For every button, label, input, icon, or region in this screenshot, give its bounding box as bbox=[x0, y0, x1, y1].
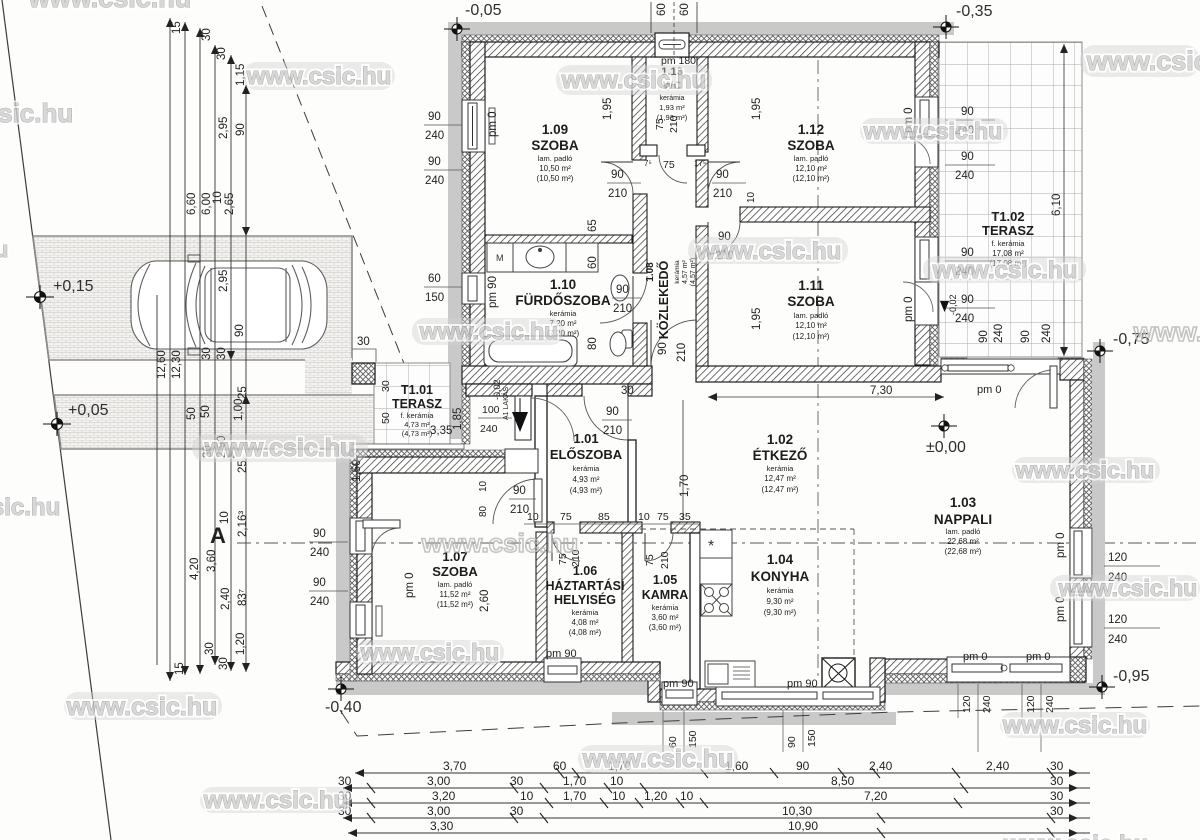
svg-text:3,00: 3,00 bbox=[427, 804, 451, 818]
benchmark ±0,00 bbox=[931, 414, 957, 438]
svg-text:10: 10 bbox=[610, 774, 624, 788]
window konyha bottom (pm 90) bbox=[716, 687, 880, 706]
room 1.03 NAPPALI bbox=[934, 495, 992, 556]
svg-text:1,20: 1,20 bbox=[644, 789, 668, 803]
svg-text:2,95: 2,95 bbox=[218, 117, 230, 139]
svg-text:www.csic.hu: www.csic.hu bbox=[696, 238, 841, 265]
terrace T1.01 bbox=[392, 383, 442, 438]
svg-text:www.csic.hu: www.csic.hu bbox=[1086, 46, 1200, 76]
svg-text:60: 60 bbox=[587, 256, 599, 269]
eloszoba east wall bbox=[628, 440, 636, 527]
svg-text:3,30: 3,30 bbox=[430, 819, 454, 833]
door 1.09 (arc) bbox=[601, 162, 633, 194]
wing window upper (90/240) bbox=[350, 518, 372, 554]
svg-text:kerámia: kerámia bbox=[674, 260, 681, 284]
svg-text:240: 240 bbox=[1041, 324, 1053, 343]
svg-text:www.csic.hu: www.csic.hu bbox=[360, 639, 499, 665]
svg-text:1,95: 1,95 bbox=[602, 98, 614, 120]
nappali right window labels bbox=[1104, 552, 1160, 584]
svg-text:kerámia: kerámia bbox=[573, 464, 601, 473]
7,30 dim line bbox=[708, 396, 944, 398]
entrance dims bbox=[478, 404, 512, 435]
svg-text:www.csic.hu: www.csic.hu bbox=[28, 0, 192, 13]
room 1.12 SZOBA bbox=[787, 122, 835, 183]
svg-text:FÜRDŐSZOBA: FÜRDŐSZOBA bbox=[515, 293, 610, 308]
svg-text:1.11: 1.11 bbox=[798, 278, 824, 293]
wall corridor left (below 1.09 door) bbox=[633, 194, 647, 273]
svg-text:SZOBA: SZOBA bbox=[787, 138, 835, 153]
divider wall 1.12 | 1.11 bbox=[740, 207, 930, 222]
svg-text:100: 100 bbox=[482, 404, 500, 416]
svg-text:A: A bbox=[210, 523, 226, 548]
svg-text:NAPPALI: NAPPALI bbox=[934, 512, 992, 527]
wall corridor left (below bath door) bbox=[633, 323, 647, 366]
terrace T1.02 south insulation pieces bbox=[941, 358, 967, 366]
middle horizontal wall (east piece) bbox=[696, 366, 941, 382]
outline style watermark right edge bbox=[1133, 317, 1200, 347]
svg-text:10: 10 bbox=[520, 789, 534, 803]
left wall insulation (upper) bbox=[462, 42, 470, 444]
svg-text:(4,08 m²): (4,08 m²) bbox=[569, 628, 602, 637]
door 1.06 (arc) bbox=[552, 533, 580, 561]
svg-text:1.02: 1.02 bbox=[767, 432, 793, 447]
WC right wall bbox=[697, 57, 708, 152]
wing bottom insulation bbox=[336, 674, 660, 681]
svg-text:1,85: 1,85 bbox=[452, 408, 464, 430]
svg-text:1,70: 1,70 bbox=[679, 475, 691, 497]
benchmark -0,75 bbox=[1087, 339, 1113, 363]
window labels right top section bbox=[945, 106, 995, 137]
svg-text:8,50: 8,50 bbox=[831, 774, 855, 788]
wing left wall insulation bbox=[350, 450, 357, 681]
svg-text:www.csic.hu: www.csic.hu bbox=[1015, 457, 1154, 483]
terrace T1.01 corner post bbox=[352, 363, 375, 384]
svg-text:240: 240 bbox=[310, 596, 329, 608]
svg-text:30: 30 bbox=[218, 657, 230, 670]
svg-text:pm 0: pm 0 bbox=[404, 572, 416, 598]
svg-text:SZOBA: SZOBA bbox=[787, 294, 835, 309]
nappali SE corner block bbox=[1070, 657, 1086, 682]
svg-text:A1 LAKÁS: A1 LAKÁS bbox=[501, 387, 510, 420]
svg-text:12,10 m²: 12,10 m² bbox=[795, 321, 827, 330]
wall 1.09 | corridor (upper) bbox=[632, 57, 646, 160]
svg-text:240: 240 bbox=[425, 175, 444, 187]
svg-text:50: 50 bbox=[186, 407, 198, 420]
wing window lower (90/240) bbox=[350, 602, 372, 638]
svg-text:lam. padló: lam. padló bbox=[794, 311, 829, 320]
svg-text:1.05: 1.05 bbox=[653, 573, 677, 587]
door arc 1.12 to terrace bbox=[903, 137, 930, 164]
svg-text:25: 25 bbox=[237, 386, 249, 399]
svg-text:kerámia: kerámia bbox=[767, 464, 795, 473]
parking strip lower (paved walkway) bbox=[54, 395, 448, 449]
svg-text:www.csic.hu: www.csic.hu bbox=[203, 787, 348, 814]
svg-text:-0,35: -0,35 bbox=[956, 3, 993, 20]
terrace T1.02 tile grid bbox=[939, 42, 1082, 357]
plinth band bottom nappali bbox=[885, 683, 1093, 695]
svg-text:12,47 m²: 12,47 m² bbox=[764, 474, 796, 483]
wall 1.09 | 1.10 bbox=[485, 235, 632, 243]
rotated chain labels bbox=[156, 21, 249, 675]
washbasin counter bbox=[487, 243, 598, 272]
svg-text:1.01: 1.01 bbox=[573, 431, 598, 446]
svg-text:www.csic.hu: www.csic.hu bbox=[863, 118, 1002, 144]
svg-text:3,70: 3,70 bbox=[443, 759, 467, 773]
right wall (upper section) bbox=[915, 42, 930, 365]
window 1.10 left (60/150) bbox=[462, 273, 485, 304]
plinth band bottom kitchen bbox=[612, 712, 896, 725]
section line A-A bbox=[237, 542, 1200, 544]
svg-text:75: 75 bbox=[663, 159, 675, 171]
svg-text:30: 30 bbox=[338, 774, 352, 788]
svg-text:(12,10 m²): (12,10 m²) bbox=[793, 174, 830, 183]
svg-text:pm 90: pm 90 bbox=[546, 648, 577, 660]
svg-text:1.04: 1.04 bbox=[767, 552, 794, 567]
kitchen bottom insulation bbox=[660, 702, 885, 710]
room 1.09 SZOBA bbox=[531, 122, 579, 183]
svg-text:±0,00: ±0,00 bbox=[926, 439, 966, 456]
bathtub bbox=[484, 336, 577, 366]
svg-text:17⁵: 17⁵ bbox=[694, 159, 706, 168]
window label 90/240 (1.09 left) bbox=[424, 111, 462, 142]
svg-text:lam. padló: lam. padló bbox=[538, 154, 573, 163]
survey marker on boundary (lower) bbox=[43, 412, 71, 436]
svg-text:12,10 m²: 12,10 m² bbox=[795, 164, 827, 173]
svg-text:90: 90 bbox=[796, 759, 810, 773]
nappali NE corner block bbox=[1060, 359, 1084, 380]
svg-text:TERASZ: TERASZ bbox=[392, 397, 442, 411]
svg-text:7⁵: 7⁵ bbox=[644, 159, 652, 168]
window 1.12 right (90/240) bbox=[915, 97, 938, 137]
terrace door 1.12 (right wall) bbox=[915, 137, 938, 167]
svg-text:SZOBA: SZOBA bbox=[432, 564, 478, 579]
room 1.11 SZOBA bbox=[787, 278, 835, 341]
svg-text:210: 210 bbox=[713, 188, 732, 200]
svg-text:75: 75 bbox=[644, 554, 656, 566]
kamra | konyha wall bbox=[690, 533, 700, 689]
svg-text:1.08: 1.08 bbox=[645, 262, 656, 282]
svg-text:3,35: 3,35 bbox=[430, 425, 452, 437]
nappali right windows (pm 0) bbox=[1070, 528, 1092, 578]
WC door (arc) bbox=[659, 155, 687, 183]
svg-text:10,30: 10,30 bbox=[782, 804, 812, 818]
svg-text:30: 30 bbox=[357, 336, 370, 348]
svg-text:www.csic.hu: www.csic.hu bbox=[1058, 575, 1197, 601]
svg-text:ELŐSZOBA: ELŐSZOBA bbox=[550, 447, 623, 462]
room 1.05 KAMRA bbox=[642, 573, 689, 632]
svg-text:www.csic.hu: www.csic.hu bbox=[1133, 317, 1200, 347]
svg-text:6,60: 6,60 bbox=[186, 193, 198, 215]
svg-text:www.csic.hu: www.csic.hu bbox=[932, 257, 1077, 284]
step connector left bbox=[648, 662, 660, 702]
svg-text:*: * bbox=[708, 538, 714, 555]
wing top wall insulation bbox=[352, 450, 540, 457]
svg-text:10,50 m²: 10,50 m² bbox=[539, 164, 571, 173]
door 1.11 (arc) bbox=[708, 222, 740, 254]
corridor right wall (upper) bbox=[696, 160, 708, 207]
svg-text:+0,05: +0,05 bbox=[68, 402, 109, 419]
svg-text:(4,73 m²): (4,73 m²) bbox=[402, 429, 433, 438]
svg-text:1.12: 1.12 bbox=[798, 122, 824, 137]
svg-text:120: 120 bbox=[1025, 695, 1037, 713]
svg-text:65: 65 bbox=[587, 219, 599, 232]
svg-text:10: 10 bbox=[680, 789, 694, 803]
svg-text:www.csic.hu: www.csic.hu bbox=[561, 67, 706, 94]
toilet bbox=[610, 275, 632, 356]
svg-text:240: 240 bbox=[1044, 695, 1056, 713]
svg-text:(9,30 m²): (9,30 m²) bbox=[764, 608, 797, 617]
bath door label bbox=[612, 284, 642, 315]
svg-text:90: 90 bbox=[716, 169, 729, 181]
svg-text:150: 150 bbox=[806, 729, 818, 747]
svg-text:240: 240 bbox=[955, 170, 974, 182]
svg-text:1.03: 1.03 bbox=[950, 495, 977, 510]
kitchen counter bottom (sink) bbox=[705, 661, 755, 687]
svg-text:90: 90 bbox=[657, 342, 669, 355]
paved connector to terrace bbox=[305, 358, 352, 397]
terrace sliding door (nappali north) bbox=[941, 359, 1060, 408]
svg-text:12,30: 12,30 bbox=[171, 350, 183, 379]
svg-text:(4,93 m²): (4,93 m²) bbox=[570, 486, 603, 495]
svg-text:kerámia: kerámia bbox=[572, 608, 600, 617]
svg-text:www.csic.hu: www.csic.hu bbox=[1002, 712, 1147, 739]
svg-text:210: 210 bbox=[613, 303, 632, 315]
svg-text:240: 240 bbox=[480, 423, 498, 435]
plinth band left (upper house) bbox=[448, 22, 462, 439]
svg-text:www.csic.hu: www.csic.hu bbox=[582, 745, 734, 773]
svg-text:pm 90: pm 90 bbox=[487, 276, 499, 308]
svg-text:30: 30 bbox=[204, 642, 216, 655]
svg-text:4,20: 4,20 bbox=[189, 558, 201, 580]
door 1.12 (arc) bbox=[708, 162, 740, 194]
svg-text:30: 30 bbox=[1050, 759, 1064, 773]
svg-text:6,10: 6,10 bbox=[1051, 194, 1063, 216]
bathroom door (arc) bbox=[600, 276, 647, 323]
svg-text:KAMRA: KAMRA bbox=[642, 588, 689, 602]
svg-text:3,00: 3,00 bbox=[427, 774, 451, 788]
svg-text:83⁷: 83⁷ bbox=[237, 589, 249, 606]
svg-text:3,20: 3,20 bbox=[432, 789, 456, 803]
svg-text:35: 35 bbox=[679, 511, 691, 523]
svg-text:90: 90 bbox=[428, 111, 441, 123]
svg-text:lam. padló: lam. padló bbox=[438, 580, 473, 589]
eloszoba door label bbox=[602, 406, 632, 437]
svg-text:f. kerámia: f. kerámia bbox=[401, 411, 435, 420]
svg-text:210: 210 bbox=[603, 425, 622, 437]
chain tick marks bbox=[367, 768, 1055, 838]
benchmark -0,40 bbox=[328, 677, 354, 701]
top wall insulation bbox=[462, 35, 939, 42]
WC vent shaft bump bbox=[655, 33, 689, 57]
svg-text:9,30 m²: 9,30 m² bbox=[766, 597, 793, 606]
nappali right wall bbox=[1070, 380, 1084, 659]
dashed site line bottom bbox=[340, 706, 1200, 736]
svg-text:ÉTKEZŐ: ÉTKEZŐ bbox=[753, 448, 808, 463]
terrace door 1.11 (right wall) bbox=[915, 282, 938, 325]
svg-text:2,16³: 2,16³ bbox=[237, 511, 249, 537]
svg-text:4,73 m²: 4,73 m² bbox=[404, 420, 430, 429]
svg-text:TERASZ: TERASZ bbox=[982, 223, 1034, 238]
svg-text:90: 90 bbox=[1020, 330, 1032, 343]
svg-text:240: 240 bbox=[425, 130, 444, 142]
svg-text:50: 50 bbox=[200, 405, 212, 418]
svg-text:75: 75 bbox=[654, 118, 666, 130]
svg-text:90: 90 bbox=[978, 330, 990, 343]
svg-text:pm 90: pm 90 bbox=[663, 678, 694, 690]
svg-text:15: 15 bbox=[171, 21, 183, 34]
svg-text:1,20: 1,20 bbox=[235, 633, 247, 655]
nappali bottom insulation bbox=[885, 674, 1085, 683]
svg-text:2,60: 2,60 bbox=[479, 590, 491, 612]
svg-text:2,40: 2,40 bbox=[986, 759, 1010, 773]
svg-text:30: 30 bbox=[1050, 804, 1064, 818]
svg-text:30: 30 bbox=[510, 804, 524, 818]
svg-text:3,60 m²: 3,60 m² bbox=[651, 613, 678, 622]
svg-text:1,70: 1,70 bbox=[563, 789, 587, 803]
svg-text:85: 85 bbox=[598, 511, 610, 523]
plinth band top bbox=[448, 22, 954, 35]
svg-text:kerámia: kerámia bbox=[660, 95, 685, 102]
wall 1.06 | kamra bbox=[622, 533, 633, 662]
svg-text:(10,50 m²): (10,50 m²) bbox=[537, 174, 574, 183]
svg-text:SZOBA: SZOBA bbox=[531, 138, 579, 153]
svg-text:30: 30 bbox=[201, 28, 213, 41]
right wall insulation (upper section) bbox=[930, 42, 938, 365]
svg-text:10: 10 bbox=[527, 511, 539, 523]
svg-text:120: 120 bbox=[1108, 614, 1127, 626]
corner benchmark -0,05 bbox=[444, 17, 470, 41]
svg-text:1.09: 1.09 bbox=[542, 122, 568, 137]
survey marker on boundary (upper) bbox=[26, 285, 54, 309]
svg-text:90: 90 bbox=[235, 123, 247, 136]
svg-text:1,70: 1,70 bbox=[563, 774, 587, 788]
porch side wall bbox=[466, 384, 532, 396]
svg-text:pm 0: pm 0 bbox=[963, 651, 987, 663]
corridor 1.08 KÖZLEKEDŐ (rotated) bbox=[645, 258, 697, 339]
door 1.07 labels bbox=[509, 485, 536, 516]
wing top wall bbox=[357, 457, 505, 473]
svg-text:210: 210 bbox=[659, 551, 671, 569]
svg-text:60: 60 bbox=[656, 3, 668, 16]
svg-text:210: 210 bbox=[676, 343, 688, 362]
section line B (vertical) bbox=[817, 60, 819, 680]
svg-text:30: 30 bbox=[201, 347, 213, 360]
svg-text:pm 0: pm 0 bbox=[903, 296, 915, 322]
svg-text:HELYISÉG: HELYISÉG bbox=[554, 592, 616, 607]
svg-text:(12,47 m²): (12,47 m²) bbox=[762, 485, 799, 494]
svg-text:pm 0: pm 0 bbox=[1055, 532, 1067, 558]
window kamra bottom (pm 90) bbox=[662, 682, 697, 705]
svg-text:90: 90 bbox=[606, 406, 619, 418]
svg-text:2,65: 2,65 bbox=[224, 193, 236, 215]
svg-text:www.csic.hu: www.csic.hu bbox=[66, 693, 218, 721]
WC door posts bbox=[640, 145, 657, 156]
window label 60/150 (bath) bbox=[424, 273, 462, 304]
window wing bottom (pm 90) bbox=[544, 658, 581, 682]
svg-text:90: 90 bbox=[313, 577, 326, 589]
svg-text:kerámia: kerámia bbox=[652, 603, 680, 612]
svg-text:90: 90 bbox=[786, 736, 798, 748]
property boundary diagonal line bbox=[2, 0, 111, 840]
svg-text:11,52 m²: 11,52 m² bbox=[440, 590, 471, 599]
nappali right wall insulation bbox=[1084, 359, 1092, 659]
entrance arrow bbox=[512, 412, 528, 432]
svg-text:210: 210 bbox=[608, 188, 627, 200]
svg-text:75: 75 bbox=[560, 511, 572, 523]
wing top wall: terrace edge line bbox=[352, 444, 464, 449]
svg-text:www.csic.hu: www.csic.hu bbox=[0, 494, 60, 521]
svg-text:240: 240 bbox=[1108, 634, 1127, 646]
svg-text:-0,40: -0,40 bbox=[325, 699, 362, 716]
svg-text:2,40: 2,40 bbox=[869, 759, 893, 773]
svg-text:90: 90 bbox=[961, 151, 974, 163]
room 1.06 HÁZTARTÁSI HELYISÉG bbox=[546, 564, 625, 637]
svg-text:30: 30 bbox=[510, 774, 524, 788]
svg-text:1,00: 1,00 bbox=[233, 399, 245, 421]
svg-text:www.csic.hu: www.csic.hu bbox=[204, 434, 356, 462]
svg-text:-0,95: -0,95 bbox=[1113, 668, 1150, 685]
svg-text:M: M bbox=[496, 253, 504, 263]
svg-text:60: 60 bbox=[428, 273, 441, 285]
eloszoba north wall pieces bbox=[547, 384, 582, 396]
top WC shaft dims bbox=[651, 2, 697, 57]
svg-text:15: 15 bbox=[174, 662, 186, 675]
svg-text:30: 30 bbox=[1050, 774, 1064, 788]
svg-text:(3,60 m²): (3,60 m²) bbox=[649, 623, 682, 632]
svg-text:T1.02: T1.02 bbox=[991, 209, 1024, 224]
radiator 1.09 bbox=[489, 108, 495, 144]
svg-text:www.csic.hu: www.csic.hu bbox=[419, 318, 558, 344]
svg-text:+0,15: +0,15 bbox=[53, 278, 94, 295]
WC shaft window symbol bbox=[659, 40, 685, 49]
svg-text:150: 150 bbox=[425, 292, 444, 304]
svg-text:pm 90: pm 90 bbox=[787, 678, 818, 690]
top wall bbox=[462, 42, 939, 57]
svg-text:(11,52 m²): (11,52 m²) bbox=[437, 600, 474, 609]
terrace arrow bbox=[940, 301, 949, 312]
wing left wall bbox=[357, 458, 372, 674]
room 1.01 ELŐSZOBA bbox=[550, 431, 623, 495]
svg-text:22,68 m²: 22,68 m² bbox=[947, 537, 979, 546]
svg-text:-0,05: -0,05 bbox=[465, 2, 502, 19]
svg-text:10: 10 bbox=[212, 191, 224, 204]
car (top view, facing left) bbox=[131, 255, 327, 355]
door label 1.11 bbox=[714, 231, 748, 262]
svg-text:90: 90 bbox=[611, 169, 624, 181]
svg-text:www.csic.hu: www.csic.hu bbox=[421, 528, 579, 558]
terrace 6,10 dim bbox=[1063, 44, 1065, 356]
svg-text:10: 10 bbox=[746, 191, 757, 203]
svg-text:10: 10 bbox=[612, 789, 626, 803]
chimney block with X bbox=[822, 658, 855, 689]
left wall (upper) bbox=[470, 42, 485, 384]
etkezo|konyha dashed separator bbox=[640, 528, 854, 530]
nappali bottom wall bbox=[885, 659, 1070, 674]
svg-text:(12,10 m²): (12,10 m²) bbox=[793, 332, 830, 341]
door labels 90/210 corridor top bbox=[607, 169, 641, 200]
window 1.09 left (90/240) bbox=[462, 100, 485, 152]
svg-text:90: 90 bbox=[513, 485, 526, 497]
svg-text:KONYHA: KONYHA bbox=[751, 569, 810, 584]
terrace T1.02 bbox=[982, 209, 1034, 268]
svg-text:30: 30 bbox=[216, 47, 228, 60]
svg-text:-0,02: -0,02 bbox=[492, 379, 502, 400]
plinth band bottom wing bbox=[336, 681, 660, 695]
room 1.10 FÜRDŐSZOBA bbox=[515, 277, 610, 338]
svg-text:12,60: 12,60 bbox=[156, 350, 168, 379]
svg-text:1,95: 1,95 bbox=[751, 98, 763, 120]
corridor-dining door (arc) bbox=[651, 320, 697, 366]
